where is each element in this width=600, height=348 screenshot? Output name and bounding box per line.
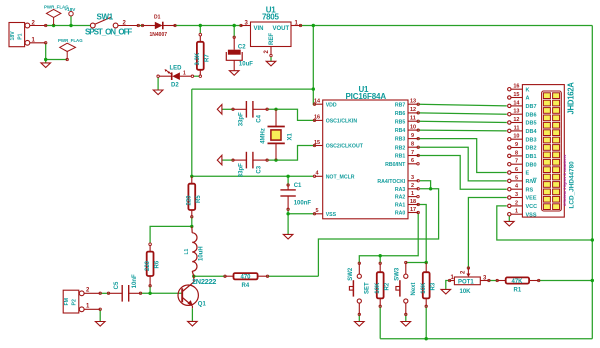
svg-text:R/W: R/W (526, 179, 538, 185)
junction Q1 collector node (192, 275, 195, 278)
svg-text:Next: Next (411, 282, 417, 295)
switch SW3 Next (396, 263, 408, 315)
ground arrow left of C3 (217, 155, 222, 165)
svg-text:33pF: 33pF (238, 112, 244, 126)
svg-text:K: K (526, 87, 530, 93)
svg-text:3.3K: 3.3K (195, 52, 201, 65)
wire LED anode to R7 bottom (194, 75, 199, 77)
svg-text:15: 15 (314, 140, 320, 146)
junction R1 wire on right rail (591, 279, 594, 282)
wire R2 top branch (379, 256, 381, 264)
ground below Q1 (188, 321, 198, 326)
wire P1.1 to gnd corner (46, 43, 67, 60)
svg-text:REF: REF (269, 33, 275, 45)
wire gnd stem below P1 (45, 60, 47, 63)
wire SW2 bottom to gnd (358, 314, 360, 321)
capacitor C2 10uF (226, 36, 253, 71)
svg-text:RA1: RA1 (395, 203, 405, 209)
ground below SW2 (355, 322, 365, 327)
svg-text:RB0/INT: RB0/INT (385, 162, 406, 168)
svg-text:C3: C3 (257, 165, 263, 173)
capacitor C3 33pF (233, 152, 268, 177)
capacitor C5 10nF (99, 274, 142, 302)
ground below P1 (41, 63, 51, 68)
junction VSS ground node (286, 212, 289, 215)
junction R2 top on RA0 net (379, 254, 382, 257)
svg-text:LCD_JHD44780: LCD_JHD44780 (568, 161, 575, 209)
PIC right pins RB7-RB0 RA4-RA0 (408, 104, 418, 212)
junction X1 top node (274, 108, 277, 111)
svg-text:6: 6 (411, 158, 414, 164)
wire C5 to base node to Q1 base (141, 292, 183, 294)
capacitor C1 100nF (280, 183, 311, 211)
svg-text:11: 11 (410, 116, 416, 122)
wire RB2 to LCD R/W (418, 147, 507, 181)
wire C3 to crystal node and OSC2 (267, 146, 314, 161)
svg-text:POT1: POT1 (458, 280, 474, 286)
wire SW3 bottom to gnd (405, 314, 407, 321)
svg-text:17: 17 (410, 207, 416, 213)
LCD pin numbers (513, 84, 520, 215)
svg-text:16: 16 (513, 84, 519, 90)
wire +18V stem (70, 16, 72, 26)
svg-text:OSC2/CLKOUT: OSC2/CLKOUT (326, 144, 364, 150)
wire MCLR rectangle left edge (191, 89, 193, 176)
wire POT1 pin3 to R1 (489, 280, 497, 282)
svg-text:D2: D2 (171, 82, 179, 88)
svg-text:9: 9 (515, 142, 518, 148)
wire +5V rail 7805 VOUT to right edge (301, 25, 593, 27)
svg-text:220: 220 (187, 195, 193, 206)
svg-text:RB5: RB5 (395, 119, 405, 125)
svg-text:10uH: 10uH (199, 246, 205, 261)
svg-text:VIN: VIN (254, 26, 264, 32)
svg-text:SW3: SW3 (394, 267, 400, 281)
wire R2 bottom to +5V rail (379, 306, 381, 338)
junction R5 top on MCLR row (190, 175, 193, 178)
wire C1 branch from MCLR row (287, 176, 289, 185)
svg-text:P1: P1 (18, 33, 24, 39)
junction R5-L1-R6 node (190, 225, 193, 228)
ground arrow left of C4 (217, 105, 222, 115)
svg-text:E: E (526, 171, 530, 177)
junction R7 branch (199, 24, 202, 27)
svg-text:DB2: DB2 (526, 146, 537, 152)
ground below POT1 pin1 (441, 289, 451, 294)
PIC left pin 4 NOT_MCLR (313, 171, 354, 181)
svg-text:2: 2 (86, 288, 90, 294)
junction VCC wire on right rail (591, 238, 594, 241)
ground below LCD VSS (505, 221, 515, 226)
svg-text:SW2: SW2 (348, 267, 354, 281)
svg-text:X1: X1 (287, 132, 293, 140)
svg-text:33pF: 33pF (238, 163, 244, 177)
wire 7805 REF pin to gnd (270, 57, 272, 62)
junction RA4-RA3 tie (429, 187, 432, 190)
connector P1 (9, 23, 46, 47)
svg-text:PIC16F84A: PIC16F84A (346, 92, 387, 101)
svg-text:10K: 10K (375, 282, 381, 294)
junction R3 top on RA1 net (425, 261, 428, 264)
wire RB6 to LCD DB6 (418, 113, 507, 114)
wire R4 right to RA3 net (268, 275, 319, 277)
PIC left pin 14 VDD (313, 99, 337, 109)
wire +5V right edge vertical (591, 26, 593, 339)
wire RB3 to LCD E (418, 139, 507, 173)
svg-text:C1: C1 (294, 183, 302, 189)
svg-text:14: 14 (513, 100, 520, 106)
wire P2.1 to gnd (99, 309, 101, 321)
svg-text:7: 7 (411, 150, 414, 156)
svg-text:RS: RS (526, 187, 534, 193)
wire RB7 to LCD DB7 (418, 104, 507, 106)
svg-text:15: 15 (513, 92, 519, 98)
resistor R7 3.3K (195, 33, 210, 77)
wire +18V rail P1.2 to SW1 (46, 25, 91, 27)
wire D1 to 7805 VIN (175, 25, 241, 27)
resistor R1 47K (496, 277, 540, 293)
svg-text:18V: 18V (10, 31, 16, 41)
svg-text:2: 2 (515, 200, 518, 206)
svg-text:R7: R7 (205, 54, 211, 62)
wire NOT_MCLR row (192, 175, 314, 177)
resistor R4 470 (224, 273, 269, 289)
wire RB4 to LCD DB4 (418, 129, 507, 132)
svg-text:5: 5 (515, 175, 518, 181)
ground below C1 (283, 234, 293, 239)
wire VSS node to gnd (287, 214, 289, 235)
wire RA0 to SW2 R2 row (359, 213, 418, 264)
ground below P2 (95, 322, 105, 327)
svg-text:C4: C4 (257, 114, 263, 122)
svg-text:P2: P2 (72, 299, 78, 305)
svg-text:C2: C2 (238, 45, 246, 51)
svg-text:VSS: VSS (526, 212, 537, 218)
wire R6 bottom to base row (149, 286, 151, 294)
wire collector node to R4 (194, 275, 225, 277)
svg-text:VEE: VEE (526, 196, 537, 202)
svg-text:10: 10 (410, 124, 416, 130)
svg-text:VCC: VCC (526, 204, 538, 210)
svg-text:4MHz: 4MHz (260, 128, 266, 144)
svg-text:DB3: DB3 (526, 137, 537, 143)
+18V power symbol (69, 12, 73, 16)
svg-text:5: 5 (316, 208, 319, 214)
svg-text:DB7: DB7 (526, 104, 537, 110)
svg-text:18: 18 (410, 199, 416, 205)
svg-text:RB3: RB3 (395, 137, 405, 143)
svg-text:9: 9 (411, 133, 414, 139)
svg-text:PWR_FLAG: PWR_FLAG (58, 38, 83, 43)
svg-text:8: 8 (411, 142, 414, 148)
junction VDD branch on +5V rail (312, 24, 315, 27)
svg-text:7805: 7805 (262, 13, 279, 22)
junction +18V symbol stem (69, 24, 72, 27)
svg-text:C5: C5 (114, 281, 120, 289)
LED D2 (157, 66, 194, 89)
svg-text:10K: 10K (421, 282, 427, 294)
junction PWR_FLAG on +18V rail (52, 24, 55, 27)
svg-text:DB5: DB5 (526, 121, 537, 127)
wire +5V bottom rail (380, 338, 592, 340)
LCD pin names (526, 87, 538, 218)
switch SW2 SET (349, 263, 361, 314)
svg-text:D1: D1 (154, 15, 161, 21)
resistor R2 10K (375, 262, 390, 307)
svg-text:RA2: RA2 (395, 195, 405, 201)
svg-text:R3: R3 (431, 282, 437, 290)
diode D1 1N4007 (143, 15, 177, 38)
resistor R3 10K (421, 263, 436, 308)
svg-text:Afficheur 2 lignes & caractere: Afficheur 2 lignes & caracteres (563, 155, 567, 206)
PWR_FLAG 1 (46, 9, 61, 25)
wire SW1 to D1 net stub (138, 25, 142, 27)
wire R3 bottom to +5V rail (425, 306, 427, 338)
svg-text:2: 2 (264, 50, 270, 54)
svg-text:1: 1 (183, 70, 186, 76)
svg-text:RB6: RB6 (395, 111, 405, 117)
wire C4 to crystal node and OSC1 (267, 109, 314, 120)
op-amp U1 PIC16F84A microcontroller (323, 85, 408, 219)
PIC left pin 16 OSC1/CLKIN (313, 115, 357, 125)
svg-text:3: 3 (411, 175, 414, 181)
PIC left pin 15 OSC2/CLKOUT (313, 140, 363, 150)
crystal X1 4MHz (260, 109, 293, 160)
wire RA1 to SW3 R3 row (406, 205, 426, 263)
svg-text:SW1: SW1 (97, 13, 114, 22)
svg-text:VSS: VSS (326, 212, 337, 218)
wire POT1 pin1 to gnd (446, 281, 450, 290)
svg-text:DB1: DB1 (526, 154, 537, 160)
svg-text:Q1: Q1 (198, 301, 207, 307)
svg-text:1: 1 (515, 209, 518, 215)
wire RA3 net long route (318, 189, 438, 276)
PWR_FLAG 2 (60, 43, 76, 59)
wire LED cathode down to gnd (157, 77, 159, 90)
wire LCD VSS to gnd (508, 216, 510, 221)
svg-text:2: 2 (411, 183, 414, 189)
junction X1 bottom node (274, 158, 277, 161)
wire R7 top branch (199, 26, 201, 34)
svg-text:10: 10 (513, 134, 519, 140)
svg-text:10K: 10K (460, 289, 472, 295)
junction P1 ground node (44, 58, 47, 61)
connector P2 (63, 290, 100, 313)
LCD connector JHD162A (522, 85, 564, 218)
svg-text:R1: R1 (514, 287, 522, 293)
svg-text:4: 4 (316, 171, 320, 177)
svg-text:R2: R2 (385, 282, 391, 290)
junction MCLR rect top (312, 87, 315, 90)
wire C1 bottom to VSS row (288, 209, 314, 214)
wire MCLR rectangle top edge (192, 88, 313, 90)
wire C4 gnd arrow to cap (222, 108, 233, 110)
svg-text:2: 2 (460, 270, 466, 274)
svg-text:RB1: RB1 (395, 154, 405, 160)
svg-text:47K: 47K (512, 279, 524, 285)
svg-text:16: 16 (314, 115, 320, 121)
ground below SW3 (401, 322, 411, 327)
svg-text:SET: SET (365, 282, 371, 294)
svg-text:7: 7 (515, 159, 518, 165)
LCD pin stubs 16..1 (508, 88, 523, 216)
svg-text:NOT_MCLR: NOT_MCLR (326, 174, 355, 180)
svg-text:13: 13 (513, 109, 519, 115)
svg-text:3: 3 (515, 192, 518, 198)
svg-text:RA4/TOCKI: RA4/TOCKI (377, 179, 405, 185)
resistor R5 220 (187, 176, 202, 218)
svg-text:11: 11 (514, 125, 520, 131)
wire C2 top branch (233, 26, 235, 38)
svg-text:A: A (526, 96, 530, 102)
svg-text:RB2: RB2 (395, 145, 405, 151)
svg-text:+18V: +18V (65, 7, 77, 12)
svg-text:R4: R4 (242, 283, 250, 289)
svg-text:6: 6 (515, 167, 518, 173)
PIC left pin 5 VSS (313, 208, 336, 218)
junction R3 bottom on +5V rail (425, 337, 428, 340)
wire RA4 to RA3 junction (420, 181, 431, 189)
junction C2 branch (233, 24, 236, 27)
svg-text:RB7: RB7 (395, 102, 405, 108)
wire LCD VEE to POT1 wiper (468, 198, 506, 269)
svg-text:14: 14 (314, 99, 321, 105)
svg-text:12: 12 (513, 117, 519, 123)
wire RB1 to LCD RS (418, 156, 507, 190)
junction C1 top branch (286, 175, 289, 178)
svg-text:LED: LED (170, 66, 183, 72)
svg-text:10uF: 10uF (239, 62, 253, 68)
ground below 7805 (266, 61, 276, 66)
potentiometer POT1 10K (448, 267, 490, 295)
svg-text:470: 470 (241, 275, 252, 281)
junction R6 base node (148, 292, 151, 295)
svg-text:RB4: RB4 (395, 128, 405, 134)
svg-text:DB4: DB4 (526, 129, 538, 135)
svg-text:100nF: 100nF (294, 201, 312, 207)
svg-text:JHD162A: JHD162A (566, 82, 575, 115)
svg-text:R6: R6 (154, 260, 160, 268)
svg-text:OSC1/CLKIN: OSC1/CLKIN (326, 119, 358, 125)
svg-text:DB6: DB6 (526, 112, 537, 118)
wire RB5 to LCD DB5 (418, 121, 507, 122)
wire C3 gnd arrow to cap (222, 159, 233, 161)
svg-text:SPST_ON_OFF: SPST_ON_OFF (85, 27, 132, 36)
svg-text:1N4007: 1N4007 (150, 32, 168, 38)
wire node to R6 top (150, 226, 192, 243)
transistor Q1 2N2222 (178, 276, 198, 305)
svg-text:VDD: VDD (326, 102, 337, 108)
svg-text:220: 220 (145, 260, 151, 271)
switch SW1 (90, 17, 138, 28)
svg-text:1: 1 (86, 304, 90, 310)
wire Q1 emitter to gnd (191, 308, 193, 321)
svg-text:13: 13 (410, 99, 416, 105)
wire VDD branch vertical (313, 26, 314, 105)
resistor R6 220 (145, 243, 160, 287)
svg-text:8: 8 (515, 150, 518, 156)
svg-text:10nF: 10nF (132, 274, 138, 288)
capacitor C4 33pF (233, 101, 268, 126)
svg-text:2N2222: 2N2222 (192, 277, 216, 286)
wire LCD VCC to +5V rail (497, 206, 593, 240)
svg-text:RA0: RA0 (395, 211, 405, 217)
svg-text:RA3: RA3 (395, 187, 405, 193)
regulator U1 7805 (240, 5, 302, 56)
svg-text:L1: L1 (184, 248, 190, 254)
svg-text:DB0: DB0 (526, 162, 537, 168)
LCD pads grid (543, 93, 559, 210)
svg-text:1: 1 (411, 191, 414, 197)
wire P2.2 net to C5 (100, 292, 108, 294)
svg-text:VOUT: VOUT (273, 26, 290, 32)
svg-text:R5: R5 (196, 195, 202, 203)
svg-text:FM: FM (64, 298, 70, 306)
wire R5 bottom to L1 node (191, 217, 193, 227)
inductor L1 10uH (192, 226, 197, 276)
wire R1 right to +5V vertical (539, 280, 593, 282)
ground below LED (153, 90, 163, 95)
ground below C2 (229, 71, 239, 76)
svg-text:12: 12 (410, 107, 416, 113)
